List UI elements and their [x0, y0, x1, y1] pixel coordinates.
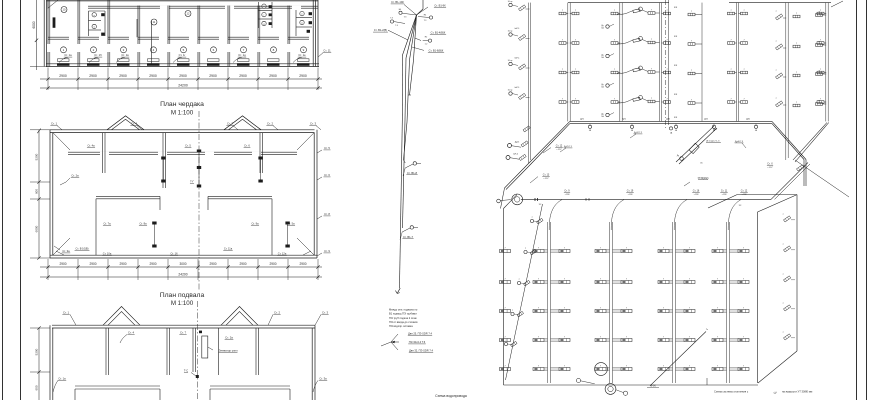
plan1 bathroom A riser mark upper: [101, 13, 104, 16]
heating scheme B bottom front edge: [504, 384, 759, 386]
plan1 room circle 2: [91, 47, 97, 53]
svg-text:Ст. В1-10К: Ст. В1-10К: [391, 0, 404, 4]
svg-text:Ст. 8а: Ст. 8а: [139, 222, 147, 226]
svg-text:Ст. 4: Ст. 4: [128, 331, 135, 335]
svg-text:Элеватор узел: Элеватор узел: [219, 349, 238, 353]
heating scheme A main valve circle at 668: [674, 125, 677, 128]
svg-text:7: 7: [717, 336, 718, 338]
svg-text:7: 7: [663, 278, 664, 280]
plan1 bathroom B circle 3: [262, 21, 266, 25]
plan1 bathroom cluster B walls: [258, 2, 260, 28]
heating scheme A left riser column: [528, 3, 530, 163]
heating scheme B back top edge right: [708, 195, 737, 208]
svg-text:Ст. 2: Ст. 2: [274, 311, 281, 315]
svg-text:7: 7: [782, 303, 783, 305]
svg-text:Ст. 10а: Ст. 10а: [103, 252, 112, 256]
svg-text:Ст. 6: Ст. 6: [324, 173, 330, 177]
svg-text:7: 7: [743, 365, 744, 367]
svg-text:Ст. 3: Ст. 3: [310, 122, 317, 126]
svg-text:7: 7: [626, 247, 627, 249]
svg-text:Ст. В1-9К: Ст. В1-9К: [434, 4, 446, 8]
plan1 bathroom B riser mark 1: [269, 5, 272, 8]
plan1 bathroom A basin circle: [92, 24, 96, 28]
water riser top valve circle 3: [429, 16, 432, 19]
heating feed left small circle: [497, 199, 501, 203]
plan3 center axis line: [196, 301, 198, 400]
plan2 inner wall upper: [68, 151, 297, 153]
heating scheme A top main pipe left segment: [568, 2, 669, 4]
heating scheme A elevator circle: [680, 157, 684, 161]
plan1 bay dimension ticks: [46, 77, 49, 80]
svg-text:7: 7: [575, 69, 576, 71]
svg-text:7: 7: [663, 307, 664, 309]
svg-text:Между отм. подвала по: Между отм. подвала по: [389, 307, 418, 311]
svg-text:№Р-4: №Р-4: [513, 153, 518, 156]
plan3 vertical wall D: [218, 328, 220, 375]
heating scheme A left lower gauge circle 2: [506, 156, 510, 160]
heating scheme B right face flag radiator floor 3: [784, 276, 791, 282]
svg-text:Ст. 7а: Ст. 7а: [103, 222, 111, 226]
water riser top valve circle 1: [399, 11, 402, 14]
plan3 vertical wall E: [255, 328, 257, 375]
heating scheme A riser Ст at x=569: [567, 3, 569, 122]
heating scheme A flag radiator floor 4: [776, 14, 783, 20]
svg-text:7: 7: [730, 40, 731, 42]
svg-text:7: 7: [531, 217, 532, 219]
plan2 vertical wall A: [102, 133, 104, 173]
svg-text:7: 7: [663, 365, 664, 367]
svg-text:7: 7: [717, 247, 718, 249]
plan1 partition wall bay 2: [77, 0, 79, 44]
svg-text:7: 7: [575, 10, 576, 12]
svg-text:7: 7: [743, 278, 744, 280]
svg-text:10 пр: 10 пр: [508, 90, 513, 92]
svg-text:В1 подвод ПЭ трубами: В1 подвод ПЭ трубами: [389, 312, 417, 316]
plan2 vertical wall B riser shaft: [162, 133, 164, 188]
svg-text:7: 7: [743, 247, 744, 249]
heating scheme A main valve circle at 748: [754, 125, 757, 128]
plan2 riser pair Ст.В1-4: [161, 157, 165, 160]
svg-text:Ст. 1а: Ст. 1а: [64, 53, 72, 57]
heating scheme A linked radiator pair floor 2: [617, 70, 633, 74]
svg-text:Ст. 7: Ст. 7: [227, 122, 234, 126]
svg-text:7: 7: [562, 69, 563, 71]
svg-text:КЖ: КЖ: [674, 117, 677, 119]
plan2 left dimension line: [38, 130, 40, 258]
plan2 center axis line: [198, 111, 200, 290]
svg-text:№Р-1: №Р-1: [515, 27, 520, 30]
svg-text:2900: 2900: [89, 262, 96, 266]
svg-text:Ст. 12: Ст. 12: [741, 189, 748, 192]
svg-text:7: 7: [775, 98, 776, 100]
svg-text:Ст. 13: Ст. 13: [543, 174, 550, 177]
heating scheme A right drop vertical: [803, 160, 805, 187]
water riser top vertical: [422, 0, 424, 9]
svg-text:Двн 32, ПЭ SDR 7.4: Двн 32, ПЭ SDR 7.4: [409, 349, 433, 353]
plan1 top cut wall line: [47, 0, 319, 2]
heating scheme A riser Ст at x=621: [619, 3, 621, 122]
svg-text:Схема системы отопления с: Схема системы отопления с: [714, 389, 749, 393]
plan1 under-window radiator bay 5: [178, 59, 190, 62]
heating scheme A left lower flag 1: [523, 126, 530, 132]
sheet border outer left edge: [2, 0, 4, 400]
heating scheme B left face flag radiator floor 1: [511, 341, 518, 347]
svg-text:7: 7: [743, 99, 744, 101]
svg-text:7: 7: [689, 365, 690, 367]
svg-text:7: 7: [775, 70, 776, 72]
svg-text:600: 600: [35, 189, 39, 194]
svg-text:5200: 5200: [35, 348, 39, 355]
water riser inlet arrowhead: [391, 341, 395, 343]
svg-text:2900: 2900: [209, 262, 216, 266]
svg-text:Т.3: Т.3: [404, 16, 407, 18]
svg-text:7: 7: [538, 365, 539, 367]
svg-text:2900: 2900: [59, 74, 67, 78]
svg-text:24200: 24200: [178, 272, 187, 276]
svg-text:2900: 2900: [179, 74, 187, 78]
svg-text:7: 7: [775, 11, 776, 13]
svg-text:Н4: Н4: [399, 9, 401, 11]
svg-text:7: 7: [691, 41, 692, 43]
svg-text:7: 7: [538, 247, 539, 249]
svg-text:2900: 2900: [299, 262, 306, 266]
heating scheme B riser elbow at x=549: [549, 200, 562, 230]
svg-text:7: 7: [538, 307, 539, 309]
plan1 upper room circle 10: [61, 7, 67, 13]
heating scheme A left lower flag 2: [521, 141, 528, 147]
svg-text:Ст. 9а: Ст. 9а: [251, 222, 259, 226]
svg-text:Ст. 1в: Ст. 1в: [121, 53, 129, 57]
svg-text:Двн 25, ПЭ SDR 7.4: Двн 25, ПЭ SDR 7.4: [408, 331, 432, 335]
plan1 bathroom C riser mark 3: [307, 30, 310, 33]
plan1 under-window radiator bay 9: [298, 59, 310, 62]
svg-text:М-96: М-96: [650, 385, 656, 388]
svg-text:ПЭ труб подача 2 этаж: ПЭ труб подача 2 этаж: [389, 316, 417, 320]
heating scheme B riser at x=611: [609, 222, 611, 383]
svg-text:Т.4: Т.4: [395, 25, 398, 27]
plan1 left wall dark riser: [53, 17, 56, 27]
svg-text:Ст. 1г: Ст. 1г: [179, 53, 186, 57]
plan1 under-window radiator bay 3: [118, 59, 130, 62]
feed line tick marks: [534, 198, 536, 201]
svg-text:Ст. 1: Ст. 1: [63, 311, 70, 315]
svg-text:5200: 5200: [35, 153, 39, 160]
heating feed pump double circle: [512, 194, 523, 205]
svg-text:7: 7: [626, 278, 627, 280]
heating scheme A linked radiator pair floor 3: [617, 40, 633, 44]
svg-text:Ст. 4а: Ст. 4а: [87, 144, 95, 148]
svg-text:М 1:100: М 1:100: [171, 300, 194, 307]
svg-text:Ст. В1-7: Ст. В1-7: [403, 235, 414, 239]
svg-text:ПЭ 32х4.4 Т.6: ПЭ 32х4.4 Т.6: [409, 340, 426, 344]
plan1 window bay 9: [297, 63, 310, 66]
svg-text:2900: 2900: [239, 74, 247, 78]
plan1 left exterior wall: [46, 0, 48, 67]
plan2 bottom exterior wall: [50, 254, 317, 256]
plan1 middle partition wall: [48, 36, 69, 38]
svg-text:7: 7: [651, 39, 652, 41]
svg-text:7: 7: [796, 13, 797, 15]
plan1 room circle 5: [181, 47, 187, 53]
water riser end arrow: [397, 288, 400, 294]
svg-text:7: 7: [525, 248, 526, 250]
heating scheme A branch valve circle floor 2: [606, 84, 609, 87]
svg-text:7: 7: [782, 214, 783, 216]
svg-text:7: 7: [600, 247, 601, 249]
plan2 hip line bottom-right corner: [297, 238, 314, 255]
svg-text:7: 7: [600, 307, 601, 309]
svg-text:7: 7: [663, 247, 664, 249]
heating scheme A left flag radiator floor 1: [519, 93, 526, 99]
svg-text:6000: 6000: [35, 225, 39, 232]
svg-text:Ст. 16: Ст. 16: [170, 252, 178, 256]
plan1 bathroom C circle 1: [300, 11, 304, 15]
svg-text:7: 7: [504, 278, 505, 280]
svg-text:Ст. 7: Ст. 7: [180, 331, 187, 335]
svg-text:УТ30(КЖ): УТ30(КЖ): [698, 177, 709, 180]
svg-text:Ст. Х: Ст. Х: [767, 162, 773, 165]
heating scheme B left face flag radiator floor 4: [530, 249, 537, 255]
plan1 bathroom C circle 2: [300, 20, 304, 24]
svg-text:№Р-1: №Р-1: [515, 57, 520, 60]
plan2 riser pair Ст.В1-7: [152, 222, 156, 225]
plan3 roof gable left outline: [103, 307, 140, 326]
heating scheme B riser at x=728: [726, 222, 728, 383]
heating scheme B riser at x=549: [547, 222, 549, 383]
svg-text:2900: 2900: [209, 74, 217, 78]
svg-text:7: 7: [538, 336, 539, 338]
svg-text:2900: 2900: [119, 262, 126, 266]
heating scheme A elevator slanted bar: [676, 126, 714, 162]
water riser top leader to label 3: [388, 30, 408, 40]
heating scheme B elevator double circle: [605, 384, 616, 395]
plan2 vertical wall C: [259, 133, 261, 173]
svg-text:7: 7: [818, 42, 819, 44]
water riser top leader to label 2: [417, 7, 429, 15]
svg-text:ЧГ-6 Дз 2 1-3: ЧГ-6 Дз 2 1-3: [706, 140, 720, 142]
svg-text:7: 7: [818, 12, 819, 14]
plan1 partition wall bay 5: [167, 6, 169, 45]
svg-text:2900: 2900: [149, 262, 156, 266]
heating scheme A left lower gauge circle 1: [508, 144, 512, 148]
svg-text:т 197: т 197: [768, 167, 774, 169]
plan1 under-window radiator bay 2: [88, 59, 100, 62]
svg-text:7: 7: [743, 307, 744, 309]
svg-text:Ст. 19: Ст. 19: [627, 189, 634, 192]
svg-text:7: 7: [504, 336, 505, 338]
svg-text:Н2: Н2: [425, 37, 427, 39]
heating scheme A main valve circle at 624: [630, 125, 633, 128]
plan1 window bay 1: [57, 63, 70, 66]
svg-text:Ду: Ду: [677, 155, 679, 157]
svg-text:7: 7: [666, 10, 667, 12]
heating scheme B right top slant: [758, 195, 798, 212]
plan3 top exterior wall: [52, 324, 315, 326]
sheet frame right outer line: [866, 0, 868, 400]
plan2 bay dimension ticks: [46, 265, 49, 268]
heating feed line main horizontal: [521, 198, 771, 200]
heating scheme B riser at x=674: [672, 222, 674, 383]
svg-text:7: 7: [743, 40, 744, 42]
svg-text:План подвала: План подвала: [160, 292, 205, 299]
svg-text:Ст. 1е: Ст. 1е: [298, 53, 306, 57]
plan1 room circle 12: [185, 11, 191, 17]
svg-text:Ст. 9: Ст. 9: [564, 189, 570, 192]
svg-text:7: 7: [564, 278, 565, 280]
plan1 partition wall bay 6: [197, 6, 199, 45]
svg-text:24200: 24200: [178, 84, 188, 88]
plan1 corridor wall: [88, 5, 318, 7]
plan2 bay dimension line: [40, 266, 322, 268]
plan1 bathroom A wc circle: [92, 13, 96, 17]
plan1 bathroom A riser mark lower: [101, 33, 105, 36]
sheet frame right inner line: [856, 0, 858, 400]
plan1 room circle 11: [151, 19, 157, 25]
plan2 roof gable right: [224, 116, 261, 130]
svg-text:7: 7: [564, 336, 565, 338]
plan1 bathroom C riser mark 1: [309, 12, 312, 15]
plan3 left exterior wall: [49, 325, 51, 400]
svg-text:7: 7: [651, 98, 652, 100]
plan1 left dimension line: [36, 0, 38, 70]
plan1 window bay 6: [207, 63, 220, 66]
plan2 right exterior wall: [316, 130, 318, 258]
plan1 window bay 5: [177, 63, 190, 66]
heating scheme A riser Ст at x=660.5: [658, 3, 660, 122]
heating scheme B right face flag radiator floor 5: [784, 216, 791, 222]
plan1 under-window radiator bay 4: [148, 59, 160, 62]
svg-text:7: 7: [614, 69, 615, 71]
svg-text:7: 7: [614, 99, 615, 101]
plan2 riser pair Ст.В1-8: [285, 222, 289, 225]
svg-text:Ст. 5: Ст. 5: [324, 146, 330, 150]
heating scheme B long diagonal pipe: [650, 332, 706, 386]
heating scheme A top main pipe right segment: [729, 2, 831, 4]
heating scheme A right drop diagonal: [772, 121, 806, 159]
plan1 bottom exterior wall: [46, 63, 319, 65]
svg-text:2900: 2900: [269, 74, 277, 78]
svg-text:7: 7: [691, 100, 692, 102]
water riser inlet leader node: [381, 342, 391, 346]
svg-text:КЖ: КЖ: [674, 7, 677, 9]
plan1 room circle 1: [61, 47, 67, 53]
plan3 left dimension line: [38, 328, 40, 400]
plan1 partition wall bay 7: [227, 6, 229, 45]
heating scheme B right face flag radiator floor 1: [784, 334, 791, 340]
plan2 hip line top-right corner: [297, 133, 314, 150]
svg-text:Ст. В1-8: Ст. В1-8: [407, 171, 418, 175]
plan1 room circle 6: [211, 47, 217, 53]
plan2 top exterior wall: [50, 129, 315, 131]
svg-text:7: 7: [666, 99, 667, 101]
svg-text:Н4: Н4: [424, 14, 426, 16]
heating scheme A elevator rect on bar: [689, 143, 699, 153]
svg-text:7: 7: [614, 10, 615, 12]
caption heating scheme rotated Q: [773, 390, 778, 395]
svg-text:7: 7: [796, 72, 797, 74]
plan1 overall dimension line: [40, 87, 322, 89]
svg-text:7: 7: [512, 310, 513, 312]
svg-text:7: 7: [505, 340, 506, 342]
svg-text:Ст. 3: Ст. 3: [322, 311, 329, 315]
svg-text:Т-Г: Т-Г: [190, 180, 194, 184]
svg-text:7: 7: [743, 69, 744, 71]
heating scheme A left lower flag 3: [519, 154, 526, 160]
heating scheme B right face flag radiator floor 2: [784, 305, 791, 311]
svg-text:7: 7: [504, 365, 505, 367]
plan1 window bay 7: [237, 63, 250, 66]
water riser right branch: [415, 38, 421, 41]
svg-text:Ст. 8: Ст. 8: [324, 212, 330, 216]
svg-text:Ст. 2а: Ст. 2а: [71, 174, 79, 178]
heating scheme A left drop diagonal lower: [505, 165, 528, 188]
svg-text:7: 7: [818, 71, 819, 73]
svg-text:Ст. 9: Ст. 9: [324, 249, 330, 253]
svg-text:7: 7: [562, 40, 563, 42]
svg-text:7: 7: [689, 336, 690, 338]
svg-text:2900: 2900: [239, 262, 246, 266]
svg-text:Ст. 3а: Ст. 3а: [319, 377, 327, 381]
svg-text:Ст. В1-6(В)К: Ст. В1-6(В)К: [429, 48, 444, 52]
plan1 left corner door swing: [48, 0, 58, 8]
water riser main pipe line C: [410, 15, 417, 60]
svg-text:2900: 2900: [149, 74, 157, 78]
plan1 right exterior wall: [315, 0, 317, 67]
svg-text:КЖ: КЖ: [674, 65, 677, 67]
svg-text:Т.3: Т.3: [424, 20, 427, 22]
heating scheme B left face flag radiator floor 2: [517, 311, 524, 317]
plan3 vertical wall B: [166, 328, 168, 375]
water riser mid branch valve 2: [402, 228, 410, 232]
svg-text:Ст. 5: Ст. 5: [185, 144, 191, 148]
svg-text:7: 7: [820, 99, 821, 101]
svg-text:7: 7: [600, 336, 601, 338]
plan3 elevator leader label: [208, 347, 213, 350]
svg-text:7: 7: [651, 10, 652, 12]
plan1 interior stub wall A: [136, 19, 138, 37]
heating feed line right diagonal: [771, 163, 808, 200]
svg-text:7: 7: [820, 10, 821, 12]
svg-text:№Р-1: №Р-1: [515, 0, 520, 1]
plan1 window bay 4: [147, 63, 160, 66]
svg-text:Ст. В 10(В): Ст. В 10(В): [75, 247, 88, 251]
svg-text:7: 7: [600, 278, 601, 280]
heating scheme A left gauge circle floor 2: [509, 62, 512, 65]
svg-text:Ду: Ду: [601, 113, 603, 115]
svg-text:Ст. 12а: Ст. 12а: [278, 252, 287, 256]
svg-text:Ст. В1-2(В): Ст. В1-2(В): [374, 28, 387, 32]
plan1 room circle 8: [271, 47, 277, 53]
svg-text:7: 7: [564, 307, 565, 309]
heating scheme A main valve circle at 582: [588, 125, 591, 128]
heating scheme A main valve circle at 706: [712, 125, 715, 128]
heating scheme A right outline diagonal: [793, 123, 827, 161]
svg-text:Ст. 11а: Ст. 11а: [224, 247, 233, 251]
svg-text:Ду25: Ду25: [515, 142, 519, 144]
heating scheme A branch valve circle floor 3: [606, 54, 609, 57]
svg-text:ПЭ от ввода до стояков: ПЭ от ввода до стояков: [389, 320, 418, 324]
plan1 right partition closure: [317, 0, 319, 67]
heating scheme B circled radiator: [595, 363, 608, 376]
svg-text:2900: 2900: [299, 74, 307, 78]
plan2 lower inner wall left: [96, 195, 160, 197]
svg-text:7: 7: [717, 278, 718, 280]
heating scheme A axis companion line: [668, 0, 670, 125]
svg-text:7: 7: [575, 40, 576, 42]
plan1 partition wall bay 4: [137, 6, 139, 45]
svg-text:7: 7: [796, 102, 797, 104]
heating scheme A left drop to pump: [501, 188, 505, 209]
